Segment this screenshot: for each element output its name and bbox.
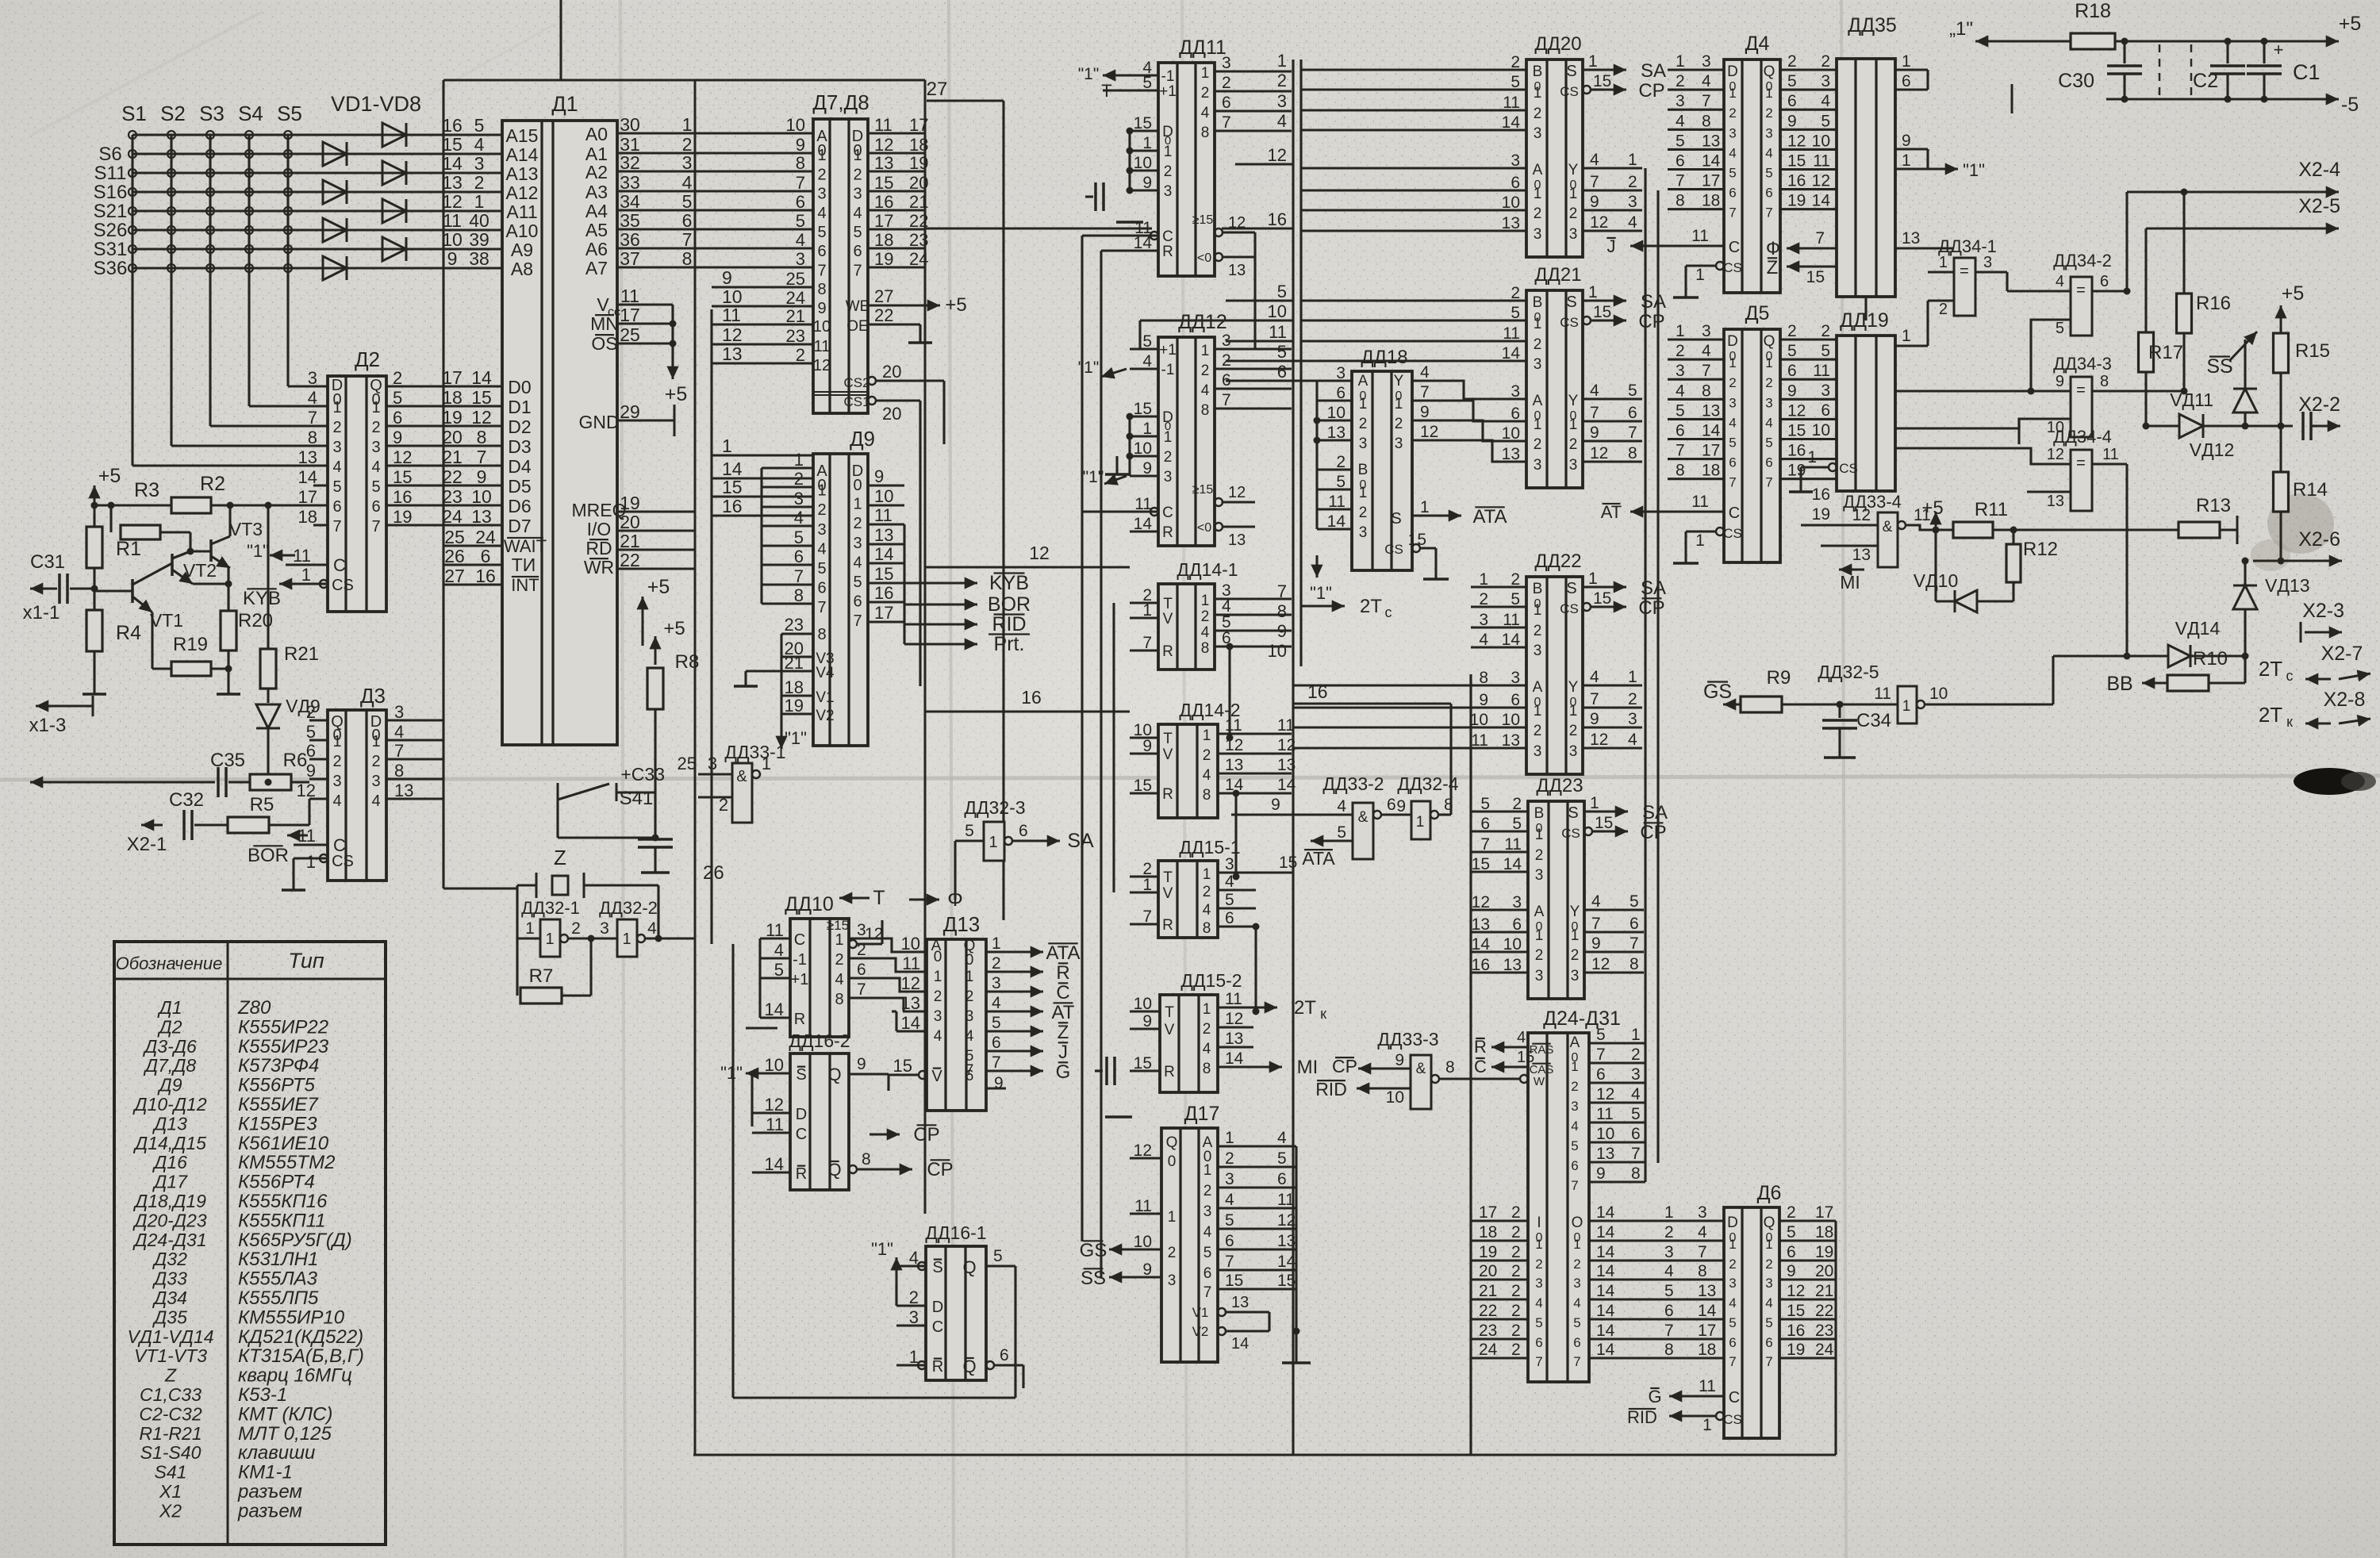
svg-text:13: 13 [1225,1030,1243,1048]
svg-text:1: 1 [1631,1026,1641,1044]
svg-text:27: 27 [927,79,948,100]
svg-text:14: 14 [1596,1341,1615,1359]
svg-text:VД11: VД11 [2170,389,2213,410]
keyboard matrix S1-S40 [131,135,133,466]
wires DD16-2 [750,1073,753,1126]
svg-text:CP: CP [1638,80,1664,102]
svg-text:5: 5 [2056,320,2064,337]
svg-text:7: 7 [1676,442,1685,460]
svg-text:9: 9 [1590,424,1599,442]
svg-text:3: 3 [1535,1276,1542,1291]
svg-text:2: 2 [1359,505,1368,521]
svg-text:1: 1 [1203,866,1211,883]
svg-text:24: 24 [475,527,496,547]
svg-text:B: B [1358,462,1368,478]
svg-text:4: 4 [332,792,341,810]
svg-text:A12: A12 [506,182,539,203]
svg-text:2: 2 [1821,52,1830,71]
counter DD11 [1158,63,1215,276]
svg-text:24: 24 [442,506,463,527]
svg-text:6: 6 [857,961,866,979]
svg-text:11: 11 [1269,322,1287,342]
svg-text:6: 6 [1225,909,1234,927]
svg-text:3: 3 [1225,855,1234,873]
svg-text:2: 2 [1573,1257,1580,1272]
svg-text:9: 9 [447,248,458,269]
svg-text:К565РУ5Г(Д): К565РУ5Г(Д) [238,1230,352,1251]
svg-text:8: 8 [308,428,317,447]
matrix column wires to D2 [132,464,328,466]
svg-text:D2: D2 [508,416,531,437]
svg-text:7: 7 [1420,383,1430,401]
svg-text:11: 11 [722,305,741,325]
svg-text:12: 12 [901,973,920,993]
svg-text:1: 1 [1534,85,1542,102]
DD11 D input bus [1128,131,1130,190]
svg-text:1: 1 [1588,283,1598,301]
svg-text:16: 16 [1021,687,1042,708]
svg-text:4: 4 [1201,624,1210,641]
svg-text:2: 2 [1571,1079,1578,1094]
svg-text:9: 9 [1271,796,1280,814]
svg-text:1: 1 [1534,602,1542,619]
svg-text:4: 4 [1201,105,1210,121]
svg-text:GS: GS [1080,1240,1107,1261]
svg-text:X2-7: X2-7 [2321,643,2363,665]
svg-text:10: 10 [1470,711,1488,729]
svg-text:ДД10: ДД10 [785,893,834,915]
svg-text:A14: A14 [506,144,539,165]
svg-text:21: 21 [909,192,928,212]
svg-text:3: 3 [817,186,826,203]
svg-text:Q: Q [962,1257,976,1277]
svg-text:ATA: ATA [1302,848,1335,869]
mux DD20 [1526,59,1583,257]
svg-text:≥15: ≥15 [1192,483,1214,497]
svg-text:12: 12 [442,191,463,212]
svg-text:5: 5 [992,1014,1001,1032]
svg-text:3: 3 [1983,254,1992,271]
svg-text:R2: R2 [200,473,225,495]
svg-text:6: 6 [481,546,491,566]
svg-text:2: 2 [1395,416,1403,432]
svg-text:3: 3 [1821,382,1830,400]
svg-text:4: 4 [647,919,657,938]
svg-text:C: C [1729,505,1740,522]
svg-text:19: 19 [1787,192,1806,210]
capacitor C32 and X2-1 [141,824,163,827]
svg-text:ДД32-5: ДД32-5 [1818,662,1879,682]
svg-text:0: 0 [965,952,974,969]
svg-text:6: 6 [371,498,380,516]
svg-text:14: 14 [442,153,463,174]
svg-text:5: 5 [993,1247,1003,1265]
svg-text:17: 17 [1698,1322,1716,1340]
svg-text:1: 1 [1902,327,1911,345]
svg-text:7: 7 [682,229,693,250]
R10 BB [2167,675,2209,691]
svg-text:2: 2 [1511,284,1520,302]
svg-text:7: 7 [1535,1354,1542,1369]
svg-text:1: 1 [1729,86,1736,101]
svg-text:7: 7 [1277,581,1287,601]
svg-text:7: 7 [1590,404,1599,422]
svg-text:12: 12 [813,357,831,374]
svg-text:18: 18 [785,677,804,697]
svg-text:D0: D0 [508,377,531,397]
svg-text:6: 6 [1571,1158,1578,1173]
svg-text:CS: CS [332,853,354,870]
svg-text:2: 2 [1336,453,1345,471]
svg-text:23: 23 [442,486,463,507]
svg-text:10: 10 [874,486,893,506]
svg-text:8: 8 [794,585,804,605]
svg-text:2: 2 [1479,590,1488,608]
capacitor C2 [2159,44,2161,96]
svg-text:3: 3 [1821,72,1830,90]
svg-text:D7: D7 [508,516,531,536]
svg-text:разъем: разъем [237,1500,302,1522]
svg-text:2: 2 [1628,173,1637,191]
DD14-1 outputs to right bus [1291,69,1292,71]
svg-text:16: 16 [1268,209,1287,229]
svg-text:1: 1 [332,399,341,416]
svg-text:2: 2 [1203,1183,1212,1199]
svg-text:A: A [1533,679,1543,696]
svg-text:R6: R6 [283,750,308,771]
svg-text:9: 9 [817,300,826,317]
svg-text:6: 6 [1573,1335,1580,1350]
svg-text:S: S [1566,63,1576,80]
svg-text:5: 5 [1225,891,1234,909]
svg-text:CS: CS [1723,260,1742,275]
mux DD22 [1526,577,1583,774]
svg-text:9: 9 [1787,382,1797,400]
svg-text:6: 6 [992,1034,1001,1052]
svg-text:8: 8 [1445,1058,1455,1076]
svg-text:2: 2 [796,345,805,365]
bus rows to mux column [1235,163,1293,165]
svg-text:15: 15 [1593,303,1611,321]
svg-text:13: 13 [1502,214,1520,232]
svg-text:RID: RID [1315,1079,1347,1099]
svg-text:Обозначение: Обозначение [116,954,223,973]
svg-text:6: 6 [1203,1265,1212,1282]
diode VD12 [2179,414,2203,438]
svg-text:1: 1 [1535,827,1544,843]
transistor VT3 [209,539,213,562]
svg-text:2: 2 [1729,1257,1736,1272]
svg-text:15: 15 [1806,268,1825,286]
svg-text:1: 1 [1142,134,1152,152]
svg-text:8: 8 [1676,192,1685,210]
svg-text:ДД33-1: ДД33-1 [724,742,785,762]
svg-text:9: 9 [1902,132,1911,150]
horizontal bus lines 12 16 [925,566,1130,568]
svg-text:11: 11 [1134,1197,1152,1215]
svg-text:D: D [1727,333,1738,350]
svg-text:V1: V1 [816,689,834,706]
svg-text:5: 5 [393,388,402,408]
svg-text:A8: A8 [511,259,533,279]
svg-text:15: 15 [1787,422,1806,440]
svg-text:12: 12 [1787,1282,1805,1300]
DD14/15 T V inputs vertical [1112,603,1115,892]
svg-text:VД14: VД14 [2175,618,2221,639]
svg-text:Д6: Д6 [1757,1182,1782,1204]
svg-text:12: 12 [297,781,316,800]
svg-text:2: 2 [965,988,974,1005]
svg-text:7: 7 [992,1053,1001,1072]
2Tc bus lines [1215,598,1301,600]
svg-text:20: 20 [882,362,901,382]
svg-text:4: 4 [371,459,380,476]
svg-text:3: 3 [1534,125,1542,142]
svg-text:19: 19 [393,507,412,527]
svg-text:1: 1 [722,436,732,456]
svg-text:2: 2 [1201,85,1210,102]
svg-text:9: 9 [1590,710,1599,728]
D13 V pin [919,1071,927,1079]
svg-text:Q: Q [827,1065,841,1084]
svg-text:1: 1 [1203,727,1211,744]
svg-text:2: 2 [1164,163,1173,180]
svg-text:&: & [1358,809,1368,826]
svg-text:1: 1 [474,191,485,212]
ROM D7,D8 [813,119,868,413]
cap to gnd at DD11 [1094,182,1097,211]
svg-text:19: 19 [785,696,804,716]
svg-text:ATA: ATA [1472,506,1507,528]
svg-text:10: 10 [471,486,492,507]
svg-text:2: 2 [1511,1322,1521,1340]
bottom distribution lines [694,1454,696,1456]
svg-text:с: с [2286,668,2294,684]
bus verticals near DRAM [1469,674,1472,1455]
svg-text:B: B [1534,805,1545,822]
svg-text:24: 24 [786,288,805,308]
svg-text:17: 17 [442,367,463,388]
paper creases [620,0,625,1558]
svg-text:C: C [1056,982,1069,1003]
svg-text:5: 5 [1535,1315,1542,1330]
svg-text:3: 3 [1535,968,1544,984]
diode VD11 [2233,389,2257,413]
svg-text:3: 3 [1573,1276,1580,1291]
svg-text:C31: C31 [30,551,65,573]
svg-text:13: 13 [1472,915,1490,934]
svg-text:15: 15 [471,387,492,408]
svg-text:7: 7 [1729,205,1736,221]
svg-text:1: 1 [1569,416,1578,433]
svg-text:3: 3 [1535,867,1544,884]
svg-text:16: 16 [442,115,463,136]
register D3 [328,710,386,881]
svg-text:20: 20 [442,427,463,447]
diode VD13 [2233,585,2257,609]
svg-text:21: 21 [620,531,640,551]
resistor R21 [267,505,269,649]
diode VD14 [2168,645,2190,667]
svg-text:2: 2 [1569,723,1578,739]
D9 output arrows KYB BOR RID Prt [904,582,977,585]
staircase DD10 to D13 [882,938,903,952]
svg-text:15: 15 [442,134,463,155]
svg-text:4: 4 [1225,1191,1234,1209]
svg-text:AT: AT [1052,1002,1075,1023]
svg-text:11: 11 [1225,990,1242,1008]
svg-text:VД13: VД13 [2265,575,2310,596]
svg-text:36: 36 [620,229,640,250]
svg-text:20: 20 [882,404,901,424]
cap gnd DD15-2 [1105,1057,1108,1085]
svg-text:S1: S1 [121,102,147,125]
svg-text:18: 18 [298,507,317,527]
svg-text:7: 7 [1765,205,1772,221]
svg-text:23: 23 [1815,1322,1833,1340]
X2-4 line [2127,190,2317,193]
svg-text:6: 6 [853,593,862,611]
svg-text:S16: S16 [94,182,128,203]
svg-text:CP: CP [913,1124,939,1145]
svg-text:3: 3 [1534,643,1542,659]
svg-text:1: 1 [1569,703,1578,720]
counter DD10 [790,919,849,1037]
svg-text:C30: C30 [2058,70,2094,92]
svg-text:7: 7 [1765,475,1772,490]
svg-text:1: 1 [1588,570,1598,588]
svg-text:3: 3 [857,921,866,939]
svg-text:X2-3: X2-3 [2302,600,2344,622]
wires DD34 chain [1954,272,2007,341]
svg-text:2: 2 [393,368,402,388]
svg-text:10: 10 [1929,685,1948,703]
svg-text:1: 1 [1676,322,1685,340]
svg-text:1: 1 [1420,498,1430,516]
svg-text:2: 2 [1512,795,1522,813]
svg-text:5: 5 [1511,590,1520,608]
svg-text:11: 11 [293,546,311,566]
svg-text:2: 2 [1765,1257,1772,1272]
svg-text:12: 12 [2047,446,2064,463]
svg-text:-5: -5 [2341,94,2359,116]
svg-text:К555ИР23: К555ИР23 [238,1036,329,1057]
+5 arrow below D1 [642,597,644,627]
svg-text:0: 0 [1165,134,1171,148]
svg-text:R7: R7 [529,965,554,987]
resistor R5 [228,817,269,833]
svg-text:2: 2 [1729,375,1736,390]
svg-text:6: 6 [1729,455,1736,470]
svg-text:C: C [1162,505,1173,521]
+5 supply left [94,485,96,514]
svg-text:WE: WE [846,298,870,315]
svg-text:x1-3: x1-3 [29,715,67,736]
svg-text:5: 5 [853,224,862,241]
svg-text:ДД22: ДД22 [1534,551,1581,572]
svg-text:МЛТ 0,125: МЛТ 0,125 [238,1423,332,1445]
svg-text:11: 11 [443,210,462,231]
svg-text:R10: R10 [2193,648,2228,670]
svg-text:9: 9 [1596,1165,1606,1183]
svg-text:1: 1 [992,934,1001,953]
svg-text:R14: R14 [2293,479,2328,501]
svg-text:OS: OS [591,333,617,354]
svg-text:Prt.: Prt. [994,633,1025,655]
wire DD11-12 chain [1253,232,1256,349]
flip-flop DD16-1 [926,1246,986,1380]
wires D1 row to bus 9..13 [712,286,813,288]
svg-text:12: 12 [1591,955,1610,973]
svg-text:7: 7 [1702,362,1711,380]
svg-text:1: 1 [1534,316,1542,332]
svg-text:10: 10 [765,1055,784,1075]
svg-text:2Т: 2Т [1294,997,1316,1019]
svg-text:S: S [1568,804,1578,822]
capacitor C35 [217,767,220,797]
svg-text:D: D [1727,1215,1738,1231]
svg-text:6: 6 [1630,915,1639,933]
staircase DD18 Y to DD21 A [1436,381,1526,399]
svg-text:R5: R5 [250,794,274,815]
svg-text:3: 3 [474,153,485,174]
svg-text:D: D [1727,63,1738,80]
svg-text:16: 16 [722,496,743,516]
svg-text:C1,C33: C1,C33 [140,1384,202,1405]
svg-text:14: 14 [1596,1302,1615,1320]
svg-text:R: R [1162,786,1173,803]
svg-text:2: 2 [934,988,942,1005]
DD12 D input bus [1128,416,1130,476]
svg-text:B: B [1533,581,1543,597]
svg-text:CP: CP [927,1159,953,1180]
svg-text:S5: S5 [277,102,302,125]
svg-text:3: 3 [1765,125,1772,140]
svg-text:VD1-VD8: VD1-VD8 [331,92,421,116]
svg-text:4: 4 [1203,902,1211,919]
svg-text:15: 15 [1134,114,1152,132]
svg-text:WAIT: WAIT [504,536,547,556]
svg-text:КМ1-1: КМ1-1 [238,1462,293,1483]
svg-text:ДД32-3: ДД32-3 [964,797,1025,818]
svg-text:3: 3 [1631,1065,1641,1084]
svg-text:6: 6 [1664,1302,1674,1320]
svg-text:R12: R12 [2023,539,2058,560]
svg-text:7: 7 [1571,1178,1578,1193]
svg-text:1: 1 [1201,343,1210,359]
svg-text:К555КП16: К555КП16 [238,1191,328,1212]
svg-text:9: 9 [1142,1012,1152,1030]
svg-text:A0: A0 [585,124,608,144]
svg-text:7: 7 [796,173,805,193]
svg-text:10: 10 [1327,404,1345,422]
svg-text:R: R [1162,917,1173,934]
svg-text:V1: V1 [1192,1305,1209,1320]
svg-text:1: 1 [1628,151,1637,169]
svg-text:14: 14 [1231,1335,1249,1353]
svg-text:O: O [1572,1215,1583,1231]
svg-text:Д2: Д2 [157,1016,182,1037]
svg-text:25: 25 [786,269,805,289]
svg-text:8: 8 [1203,920,1211,937]
svg-text:S36: S36 [94,258,128,279]
svg-text:R21: R21 [284,643,319,665]
svg-text:Y: Y [1568,679,1579,696]
svg-text:2: 2 [1168,1245,1177,1261]
svg-text:38: 38 [469,248,489,269]
svg-text:„1": „1" [1949,18,1973,40]
svg-text:15: 15 [1787,152,1806,171]
